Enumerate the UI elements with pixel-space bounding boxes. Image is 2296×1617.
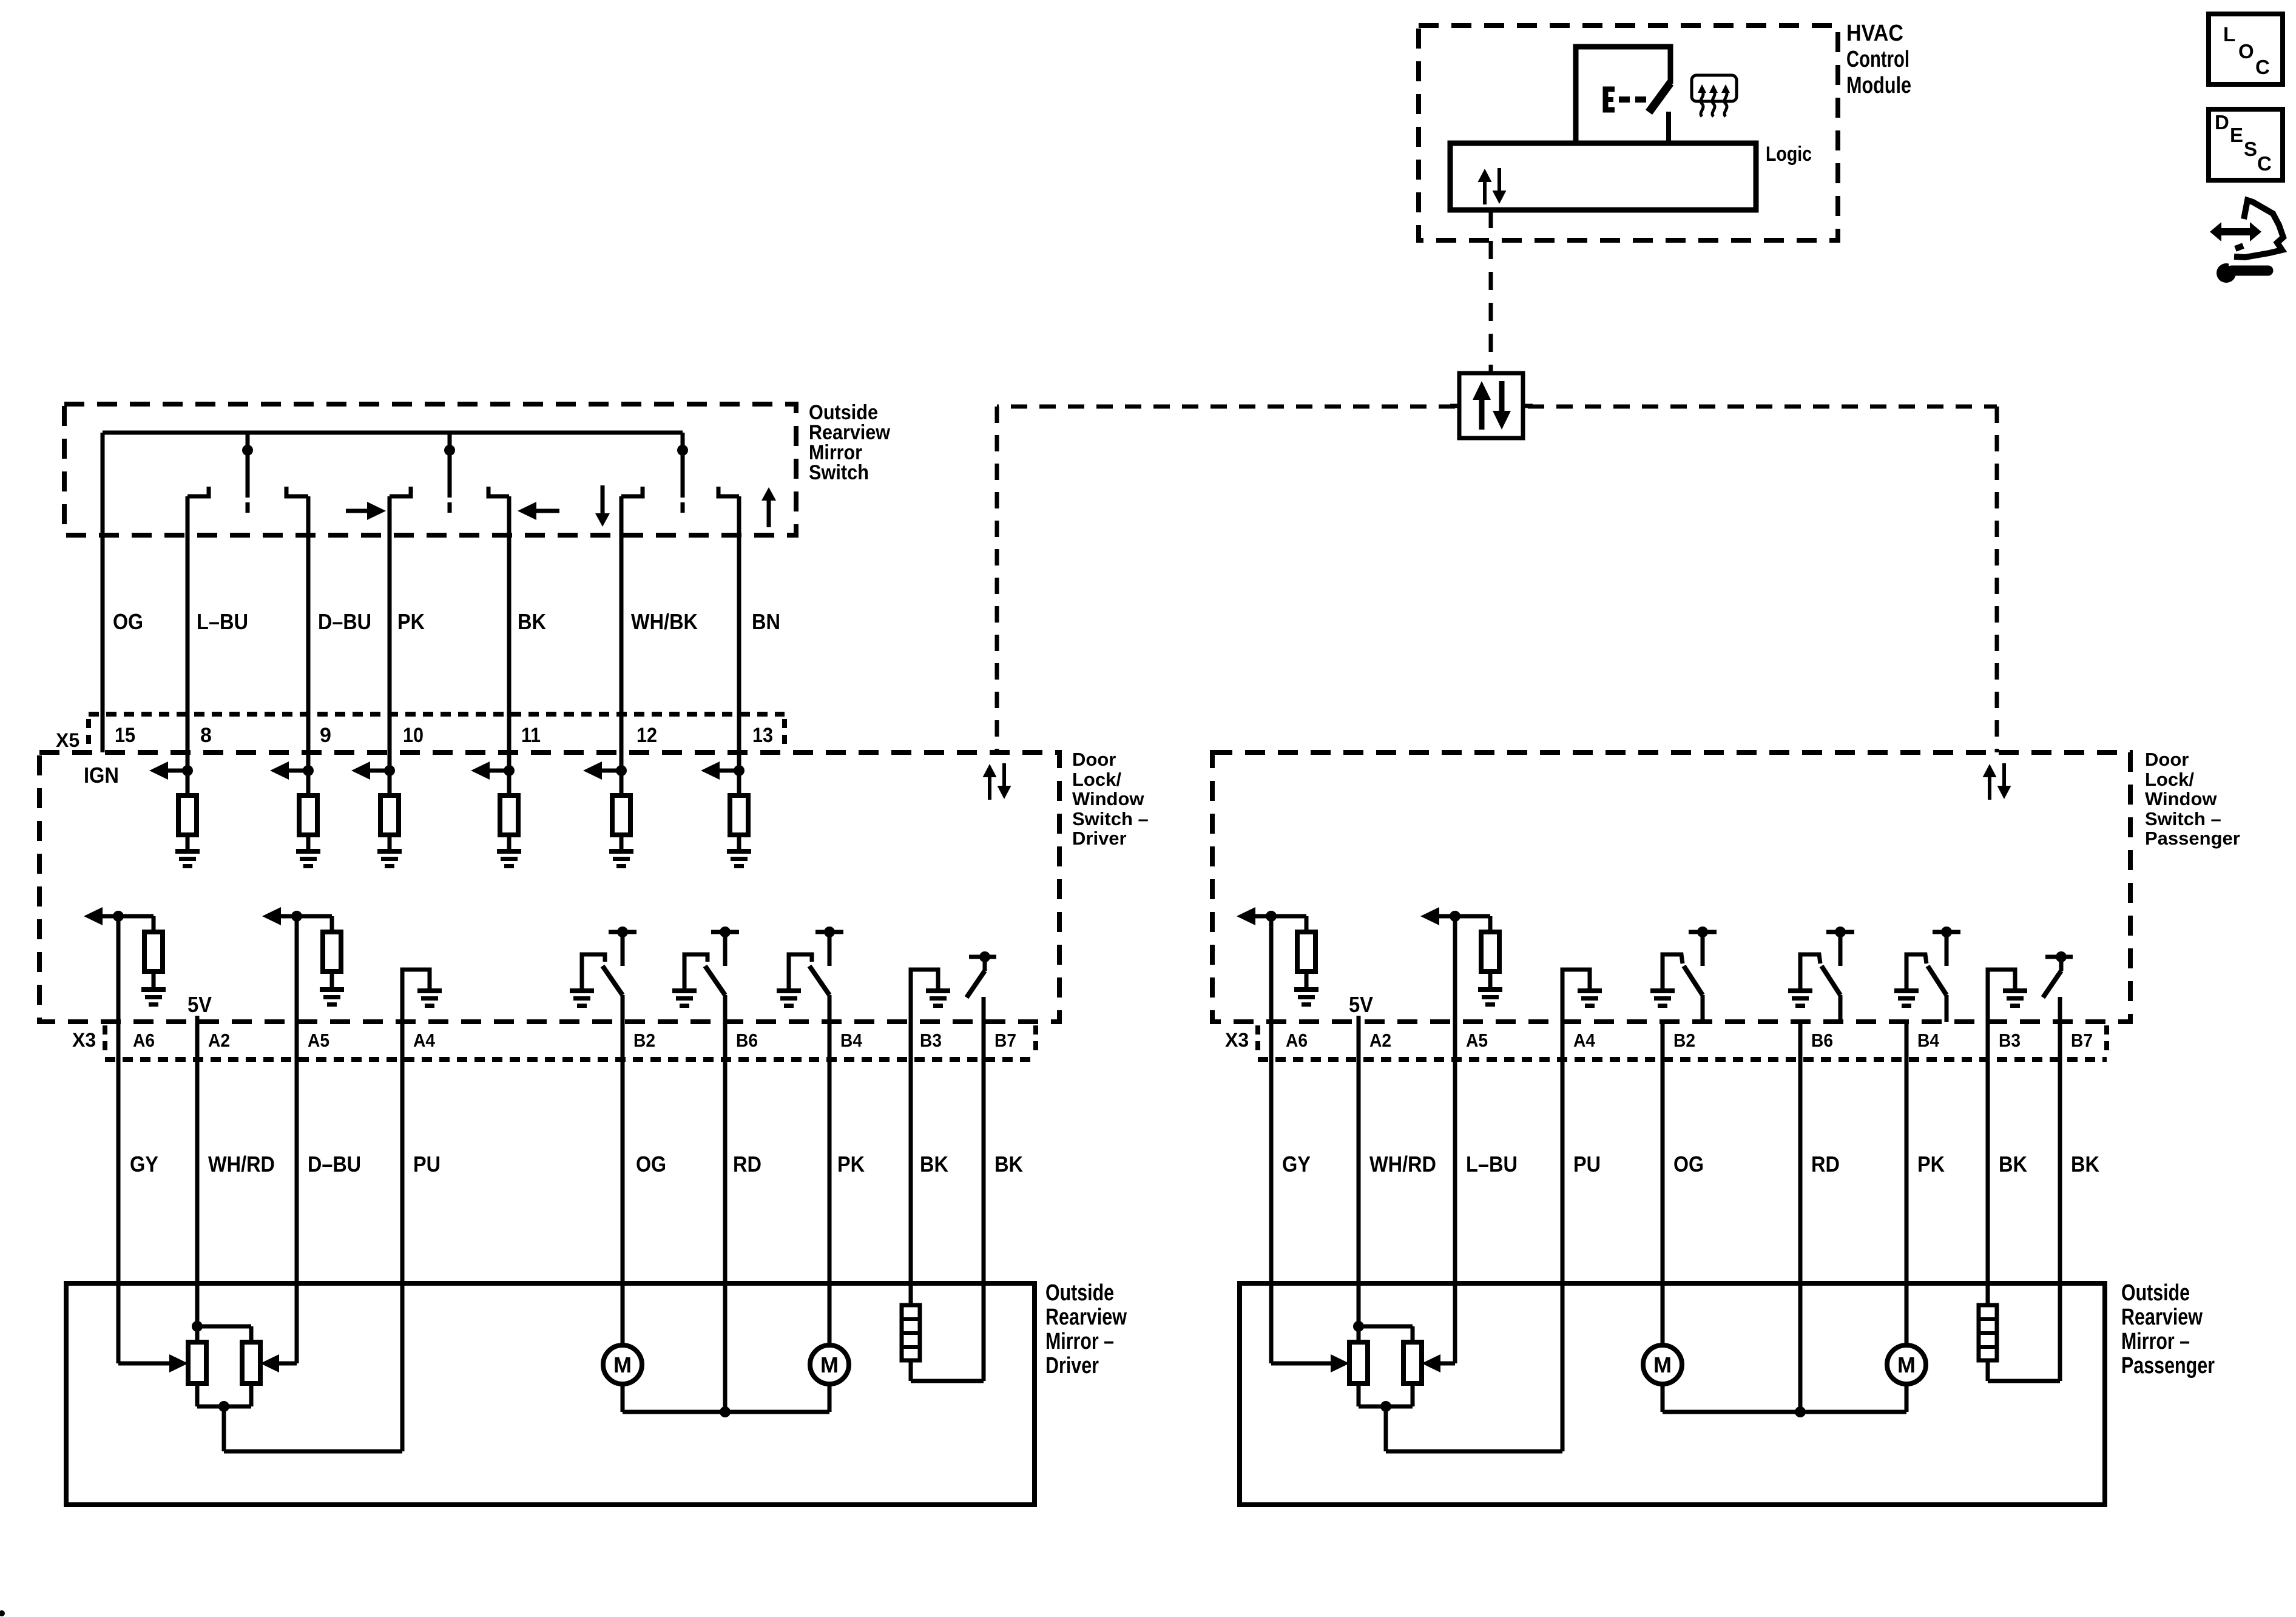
svg-text:A5: A5 — [308, 1030, 329, 1051]
svg-text:D: D — [2215, 111, 2229, 133]
svg-text:Driver: Driver — [1045, 1353, 1099, 1379]
svg-text:B4: B4 — [840, 1030, 863, 1051]
svg-text:Rearview: Rearview — [2121, 1305, 2203, 1330]
svg-text:A2: A2 — [1369, 1030, 1391, 1051]
svg-text:A5: A5 — [1466, 1030, 1488, 1051]
svg-text:A6: A6 — [1286, 1030, 1308, 1051]
svg-text:PK: PK — [1917, 1152, 1945, 1176]
svg-text:B7: B7 — [2071, 1030, 2093, 1051]
svg-text:PU: PU — [413, 1152, 441, 1176]
svg-text:X5: X5 — [56, 729, 79, 751]
svg-text:GY: GY — [130, 1152, 158, 1176]
svg-text:M: M — [1897, 1352, 1916, 1377]
svg-text:B3: B3 — [920, 1030, 942, 1051]
svg-text:RD: RD — [1811, 1152, 1840, 1176]
svg-text:B2: B2 — [633, 1030, 655, 1051]
svg-text:S: S — [2244, 138, 2257, 160]
svg-text:B6: B6 — [1811, 1030, 1833, 1051]
svg-text:B6: B6 — [736, 1030, 758, 1051]
svg-text:11: 11 — [521, 724, 541, 747]
svg-text:L–BU: L–BU — [197, 609, 248, 634]
svg-text:9: 9 — [320, 724, 331, 747]
svg-text:BK: BK — [920, 1152, 948, 1176]
svg-text:B4: B4 — [1917, 1030, 1940, 1051]
svg-text:Mirror –: Mirror – — [1045, 1329, 1114, 1354]
svg-text:B7: B7 — [994, 1030, 1016, 1051]
svg-text:PK: PK — [837, 1152, 865, 1176]
svg-text:HVAC: HVAC — [1846, 21, 1903, 46]
svg-text:Passenger: Passenger — [2121, 1353, 2215, 1379]
svg-text:X3: X3 — [1225, 1029, 1249, 1051]
svg-text:Logic: Logic — [1766, 143, 1812, 166]
svg-text:Switch: Switch — [809, 461, 869, 484]
svg-text:Outside: Outside — [2121, 1280, 2190, 1306]
svg-text:5V: 5V — [1349, 992, 1373, 1017]
svg-text:12: 12 — [636, 724, 657, 747]
svg-text:IGN: IGN — [84, 763, 119, 788]
svg-text:Door: Door — [2145, 749, 2189, 770]
svg-text:B2: B2 — [1673, 1030, 1695, 1051]
svg-text:WH/BK: WH/BK — [631, 609, 698, 634]
svg-text:8: 8 — [200, 724, 212, 747]
svg-text:BK: BK — [994, 1152, 1023, 1176]
svg-text:RD: RD — [733, 1152, 761, 1176]
svg-text:Switch –: Switch – — [2145, 808, 2221, 829]
svg-text:M: M — [1653, 1352, 1672, 1377]
svg-text:WH/RD: WH/RD — [1369, 1152, 1436, 1176]
svg-text:Module: Module — [1846, 73, 1911, 98]
svg-text:Switch –: Switch – — [1072, 808, 1149, 829]
svg-text:D–BU: D–BU — [308, 1152, 361, 1176]
svg-text:BK: BK — [1999, 1152, 2027, 1176]
svg-text:5V: 5V — [187, 992, 212, 1017]
svg-text:OG: OG — [1673, 1152, 1704, 1176]
svg-text:C: C — [2255, 56, 2270, 78]
svg-text:PU: PU — [1573, 1152, 1601, 1176]
svg-text:15: 15 — [115, 724, 135, 747]
svg-text:WH/RD: WH/RD — [208, 1152, 275, 1176]
svg-text:Lock/: Lock/ — [1072, 769, 1121, 790]
svg-text:C: C — [2257, 152, 2272, 175]
svg-text:BK: BK — [2071, 1152, 2099, 1176]
svg-text:Outside: Outside — [1045, 1280, 1114, 1306]
svg-text:Lock/: Lock/ — [2145, 769, 2194, 790]
svg-text:13: 13 — [752, 724, 773, 747]
svg-text:GY: GY — [1282, 1152, 1311, 1176]
svg-text:L–BU: L–BU — [1466, 1152, 1518, 1176]
svg-text:PK: PK — [397, 609, 425, 634]
svg-text:A6: A6 — [133, 1030, 155, 1051]
svg-text:A2: A2 — [208, 1030, 230, 1051]
svg-text:M: M — [613, 1352, 632, 1377]
svg-text:Window: Window — [2145, 788, 2217, 809]
svg-text:B3: B3 — [1999, 1030, 2021, 1051]
svg-text:BK: BK — [518, 609, 546, 634]
svg-text:Control: Control — [1846, 47, 1909, 72]
svg-text:OG: OG — [113, 609, 143, 634]
svg-text:BN: BN — [752, 609, 780, 634]
svg-text:Passenger: Passenger — [2145, 828, 2240, 849]
svg-text:Door: Door — [1072, 749, 1116, 770]
svg-text:E: E — [2230, 124, 2243, 146]
svg-text:A4: A4 — [413, 1030, 436, 1051]
svg-text:X3: X3 — [72, 1029, 96, 1051]
svg-text:A4: A4 — [1573, 1030, 1596, 1051]
svg-text:M: M — [820, 1352, 839, 1377]
svg-text:Driver: Driver — [1072, 828, 1127, 849]
svg-text:OG: OG — [636, 1152, 666, 1176]
svg-text:O: O — [2238, 40, 2254, 62]
svg-text:L: L — [2223, 23, 2235, 46]
svg-text:10: 10 — [403, 724, 424, 747]
svg-text:D–BU: D–BU — [318, 609, 371, 634]
svg-text:Rearview: Rearview — [1045, 1305, 1127, 1330]
svg-text:Mirror –: Mirror – — [2121, 1329, 2190, 1354]
svg-text:Window: Window — [1072, 788, 1144, 809]
